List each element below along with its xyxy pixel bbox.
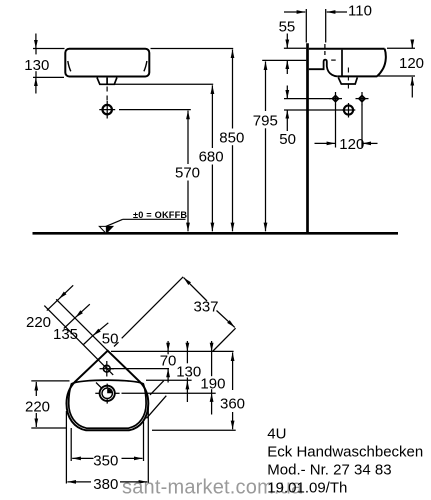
ext 120 right bottom: [379, 75, 416, 77]
drain fitting front: [97, 78, 117, 85]
svg-text:337: 337: [194, 299, 219, 316]
apex line: [111, 350, 234, 352]
drain outlet circle front: [103, 105, 112, 114]
dim ray 50: [93, 323, 108, 336]
svg-text:Mod.- Nr. 27 34 83: Mod.- Nr. 27 34 83: [267, 462, 391, 479]
ext 55 top: [284, 47, 306, 49]
tap hole: [103, 365, 110, 372]
ext 120 bottom left: [335, 105, 337, 148]
ext 680: [115, 83, 214, 85]
svg-text:4U: 4U: [267, 426, 286, 443]
dim 130 plan: [186, 341, 188, 351]
svg-text:570: 570: [175, 165, 200, 182]
level triangle: [99, 226, 113, 233]
mound right dash: [331, 59, 336, 61]
ext bottom 130: [33, 76, 64, 78]
dim 110 right arrow: [327, 11, 347, 13]
ext 380 left: [65, 411, 67, 484]
drain center dashed side: [347, 68, 349, 89]
svg-text:190: 190: [200, 375, 225, 392]
ext drain line: [284, 109, 344, 111]
dim 850: [232, 50, 234, 129]
337 extension line lower piece B: [213, 328, 236, 351]
svg-text:220: 220: [25, 399, 50, 416]
ext 380 right: [147, 407, 149, 484]
fixing hole right: [359, 96, 365, 102]
svg-text:360: 360: [220, 396, 245, 413]
svg-text:55: 55: [279, 19, 296, 36]
dim ray 220: [59, 285, 73, 299]
front line right: [152, 429, 236, 431]
ext 110 tap: [325, 9, 327, 43]
svg-text:Eck Handwaschbecken: Eck Handwaschbecken: [267, 444, 423, 461]
dim 70: [167, 341, 169, 351]
svg-text:19.01.09/Th: 19.01.09/Th: [267, 480, 347, 497]
dim 120 right: [411, 40, 413, 49]
337 extension line lower piece A: [147, 396, 167, 419]
dim 795: [265, 61, 267, 111]
dim 380: [67, 481, 91, 483]
drain center dashed: [106, 87, 108, 104]
ext 120 bottom right: [361, 105, 363, 148]
fixing hole left: [333, 96, 339, 102]
svg-text:120: 120: [339, 136, 364, 153]
left wall ext diagonal: [114, 342, 119, 346]
wall: [306, 43, 309, 233]
svg-text:130: 130: [24, 57, 49, 74]
tap ext diagonal: [44, 306, 113, 375]
ext 570: [119, 109, 191, 111]
drain plan: [100, 386, 115, 401]
ext 795 tap height: [262, 59, 306, 61]
tap line: [110, 368, 169, 370]
svg-text:380: 380: [93, 476, 118, 493]
ext top-right 850: [151, 48, 234, 50]
inner section line: [341, 50, 343, 77]
tap center dashed: [324, 44, 326, 58]
dim 570: [187, 111, 189, 164]
floor line: [33, 232, 399, 235]
dim 220 left: [35, 382, 37, 396]
widest line left: [31, 380, 69, 382]
outer rim: [67, 351, 149, 431]
inner rim: [69, 380, 146, 428]
drain outlet cross: [106, 101, 108, 119]
level leader: [106, 219, 123, 226]
drain circle side: [344, 105, 353, 114]
svg-text:50: 50: [279, 131, 296, 148]
basin inner wall dash left: [68, 61, 71, 71]
drain ext diagonal: [96, 383, 102, 389]
dim 190: [211, 341, 213, 351]
basin front outline: [65, 49, 149, 77]
widest line right: [146, 379, 192, 381]
basin top edge: [309, 48, 385, 50]
dim 350: [72, 457, 93, 459]
siphon cover: [338, 78, 357, 85]
svg-text:220: 220: [26, 314, 51, 331]
svg-text:±0 = OKFFB: ±0 = OKFFB: [133, 210, 187, 220]
ext 350 left: [70, 428, 72, 461]
ext 350 right: [143, 422, 145, 461]
dim 55: [286, 34, 288, 49]
dim 130 arrows: [35, 34, 37, 49]
short diagonal tick between lines: [150, 381, 164, 395]
svg-text:850: 850: [219, 129, 244, 146]
svg-text:135: 135: [53, 326, 78, 343]
level underline: [123, 218, 186, 220]
svg-text:120: 120: [399, 55, 424, 72]
basin inner wall dash right: [144, 61, 147, 71]
svg-text:70: 70: [160, 353, 177, 370]
svg-text:130: 130: [176, 364, 201, 381]
dim ray 135: [75, 304, 90, 317]
dim 360: [232, 352, 234, 390]
front ext left: [31, 427, 66, 429]
ext fixing holes line: [284, 98, 331, 100]
dim 337: [184, 278, 207, 301]
svg-text:110: 110: [348, 3, 372, 20]
ext 120 right top: [387, 47, 415, 49]
svg-text:795: 795: [253, 112, 278, 129]
basin bottom edge: [337, 75, 377, 77]
drain fitting divider: [106, 78, 108, 85]
basin underside and tap mound: [309, 60, 338, 77]
drain line: [122, 392, 216, 394]
dim 50 side: [286, 86, 288, 99]
ext 110 wall: [305, 9, 307, 43]
basin right profile curve: [377, 49, 386, 77]
svg-text:350: 350: [93, 452, 118, 469]
svg-text:680: 680: [199, 149, 224, 166]
dim 120 bottom: [315, 142, 336, 144]
dim 110 left arrow: [284, 11, 305, 13]
dim 680: [211, 85, 213, 148]
ext top 130: [33, 48, 65, 50]
wall ext diagonal: [56, 299, 107, 350]
